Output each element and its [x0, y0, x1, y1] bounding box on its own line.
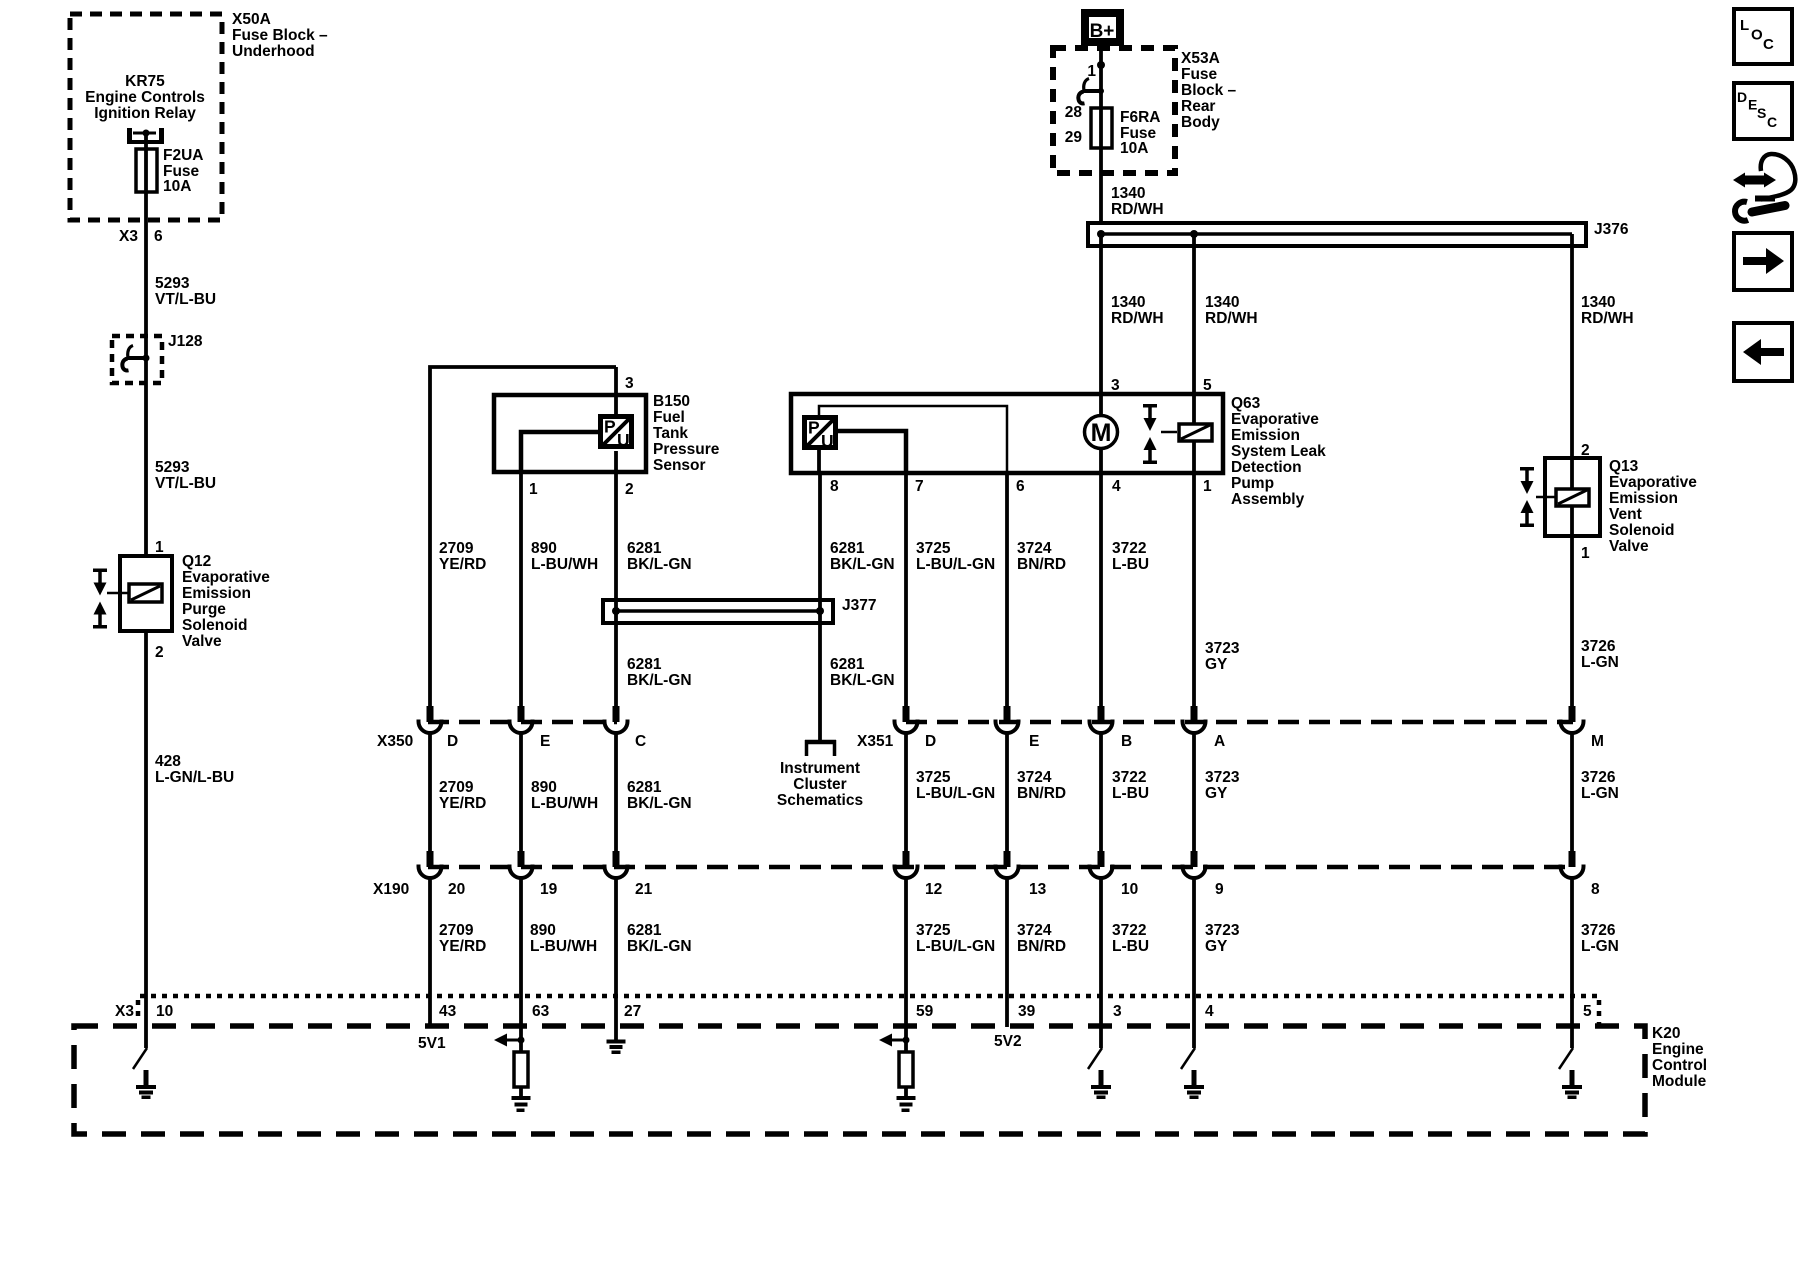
svg-text:B+: B+	[1090, 21, 1115, 42]
ECM pin 10 internal ground	[133, 996, 156, 1099]
svg-text:Valve: Valve	[182, 633, 222, 650]
connector X190 9	[1183, 851, 1206, 878]
engine control module K20 dashed box	[74, 1026, 1645, 1134]
svg-text:L-BU: L-BU	[1112, 785, 1149, 802]
svg-text:L-GN: L-GN	[1581, 938, 1619, 955]
svg-text:Pressure: Pressure	[653, 441, 720, 458]
svg-text:6281: 6281	[627, 922, 662, 939]
svg-text:KR75: KR75	[125, 73, 165, 90]
svg-text:Emission: Emission	[1231, 427, 1300, 444]
svg-text:L-BU/WH: L-BU/WH	[531, 556, 598, 573]
wire from B+ through X53A	[1099, 46, 1103, 223]
svg-text:L-GN: L-GN	[1581, 785, 1619, 802]
svg-text:3723: 3723	[1205, 769, 1240, 786]
svg-text:M: M	[1591, 733, 1604, 750]
svg-text:890: 890	[531, 779, 557, 796]
svg-text:E: E	[540, 733, 550, 750]
svg-text:D: D	[447, 733, 458, 750]
svg-text:J376: J376	[1594, 221, 1629, 238]
wire 1340 to Q13	[1572, 234, 1634, 458]
svg-text:L-BU/L-GN: L-BU/L-GN	[916, 785, 995, 802]
svg-text:Evaporative: Evaporative	[1231, 411, 1319, 428]
splice J376	[1088, 221, 1629, 246]
svg-text:Sensor: Sensor	[653, 457, 706, 474]
svg-text:19: 19	[540, 881, 558, 898]
icon wire repair	[1733, 154, 1795, 221]
svg-text:Detection: Detection	[1231, 459, 1302, 476]
wire 3726 below X190	[1572, 878, 1619, 996]
svg-text:3: 3	[625, 375, 634, 392]
pin labels of Q63 top	[1111, 377, 1212, 394]
connector X190 20	[419, 851, 442, 878]
svg-text:3722: 3722	[1112, 922, 1146, 939]
wire 428 L-GN/L-BU	[146, 631, 234, 996]
wire 3724 below X190	[1007, 878, 1066, 996]
label F2UA Fuse 10A	[163, 147, 203, 195]
connector X351 M	[1561, 706, 1584, 733]
svg-text:5V2: 5V2	[994, 1033, 1022, 1050]
labels X350 row	[377, 733, 1604, 750]
wire 3725 from Q63 pin7	[906, 473, 995, 706]
svg-text:Underhood: Underhood	[232, 43, 315, 60]
svg-text:YE/RD: YE/RD	[439, 556, 486, 573]
wire 2709 below X190	[430, 878, 486, 996]
svg-text:Control: Control	[1652, 1057, 1707, 1074]
svg-text:L-GN/L-BU: L-GN/L-BU	[155, 769, 234, 786]
ECM pin 63 pullup resistor and ground	[494, 996, 531, 1112]
svg-text:VT/L-BU: VT/L-BU	[155, 475, 216, 492]
svg-text:6281: 6281	[627, 779, 662, 796]
wire from relay through fuse to Q12	[144, 133, 148, 556]
wire 6281 between rows	[616, 733, 692, 851]
svg-text:C: C	[635, 733, 646, 750]
svg-text:BK/L-GN: BK/L-GN	[627, 938, 692, 955]
svg-text:Q63: Q63	[1231, 395, 1261, 412]
ECM pin 4 internal ground	[1181, 996, 1204, 1099]
svg-text:M: M	[1091, 419, 1112, 447]
svg-text:O: O	[1751, 27, 1763, 44]
svg-text:X3: X3	[119, 228, 138, 245]
label X50A Fuse Block Underhood	[232, 11, 328, 60]
svg-text:X350: X350	[377, 733, 413, 750]
svg-text:10A: 10A	[1120, 140, 1148, 157]
svg-text:28: 28	[1065, 104, 1083, 121]
svg-text:X351: X351	[857, 733, 894, 750]
svg-text:Q12: Q12	[182, 553, 211, 570]
svg-text:3725: 3725	[916, 922, 951, 939]
svg-text:6281: 6281	[627, 656, 662, 673]
svg-text:BK/L-GN: BK/L-GN	[627, 672, 692, 689]
connector X350 C	[605, 706, 628, 733]
svg-text:5293: 5293	[155, 459, 190, 476]
label Instrument Cluster Schematics	[777, 760, 863, 809]
svg-text:3722: 3722	[1112, 769, 1146, 786]
connector X351 A	[1183, 706, 1206, 733]
connector X190 19	[510, 851, 533, 878]
svg-text:Solenoid: Solenoid	[1609, 522, 1674, 539]
svg-text:3: 3	[1111, 377, 1120, 394]
wire 3726 L-GN upper	[1572, 536, 1619, 706]
valve symbol inside Q63	[1143, 404, 1177, 464]
svg-text:43: 43	[439, 1003, 457, 1020]
svg-text:10A: 10A	[163, 178, 191, 195]
svg-text:RD/WH: RD/WH	[1205, 310, 1258, 327]
connector label X3 pin 6	[119, 228, 163, 245]
wire 1340 to Q63 pin 3	[1101, 234, 1164, 394]
connector X190 21	[605, 851, 628, 878]
svg-text:21: 21	[635, 881, 653, 898]
svg-text:S: S	[1757, 105, 1766, 121]
svg-text:D: D	[1737, 89, 1747, 105]
svg-text:Vent: Vent	[1609, 506, 1642, 523]
wire 2709 between rows	[430, 733, 486, 851]
labels X190 row	[373, 881, 1600, 898]
svg-text:X50A: X50A	[232, 11, 271, 28]
svg-text:Module: Module	[1652, 1073, 1707, 1090]
connector X190 12	[895, 851, 918, 878]
svg-text:Valve: Valve	[1609, 538, 1649, 555]
svg-text:29: 29	[1065, 129, 1083, 146]
svg-text:Block –: Block –	[1181, 82, 1237, 99]
solenoid valve Q13	[1520, 458, 1600, 536]
svg-text:6281: 6281	[627, 540, 662, 557]
icon arrow right	[1734, 233, 1792, 290]
svg-text:1: 1	[1087, 63, 1096, 80]
svg-text:Engine: Engine	[1652, 1041, 1704, 1058]
pin 1 of Q12	[155, 539, 164, 556]
fuse F6RA	[1065, 104, 1112, 148]
wire 3724 from Q63 pin6	[1007, 473, 1066, 706]
svg-text:Instrument: Instrument	[780, 760, 860, 777]
connector row X190 dashes	[428, 865, 1573, 870]
svg-text:RD/WH: RD/WH	[1111, 201, 1164, 218]
pump assembly Q63 box	[791, 394, 1223, 473]
wire 3725 between rows	[906, 733, 995, 851]
ECM pin 27 internal ground	[607, 996, 626, 1054]
connector X351 B	[1090, 706, 1113, 733]
svg-text:Fuel: Fuel	[653, 409, 685, 426]
wire label 2709 YE/RD upper	[439, 540, 486, 573]
svg-text:1: 1	[1203, 478, 1212, 495]
svg-text:39: 39	[1018, 1003, 1036, 1020]
svg-text:Q13: Q13	[1609, 458, 1639, 475]
svg-text:B150: B150	[653, 393, 690, 410]
svg-text:5293: 5293	[155, 275, 190, 292]
svg-text:5: 5	[1583, 1003, 1592, 1020]
svg-text:890: 890	[530, 922, 556, 939]
svg-text:Rear: Rear	[1181, 98, 1215, 115]
svg-text:Tank: Tank	[653, 425, 688, 442]
svg-text:2709: 2709	[439, 540, 474, 557]
svg-text:3725: 3725	[916, 769, 951, 786]
svg-text:7: 7	[915, 478, 924, 495]
solenoid inside Q63	[1179, 394, 1212, 473]
connector row X350 dashes	[428, 720, 1573, 725]
svg-text:D: D	[925, 733, 936, 750]
sensor B150 box	[494, 395, 646, 472]
pin 2 of Q12	[155, 644, 164, 661]
svg-text:1340: 1340	[1111, 185, 1145, 202]
wire label 6281 BK/L-GN below J377 left	[627, 656, 692, 689]
svg-text:13: 13	[1029, 881, 1047, 898]
wire 3723 from Q63 pin1	[1194, 473, 1240, 706]
svg-text:Purge: Purge	[182, 601, 226, 618]
svg-text:L-GN: L-GN	[1581, 654, 1619, 671]
svg-text:J377: J377	[842, 597, 876, 614]
svg-text:Fuse: Fuse	[1181, 66, 1218, 83]
label Q12 Evaporative Emission Purge Solenoid Valve	[182, 553, 270, 650]
svg-text:2709: 2709	[439, 922, 474, 939]
svg-text:890: 890	[531, 540, 557, 557]
wire label 1340 RD/WH top	[1111, 185, 1164, 218]
connector X350 D	[419, 706, 442, 733]
wire 890 from B150 pin1	[519, 472, 523, 706]
svg-text:BK/L-GN: BK/L-GN	[830, 672, 895, 689]
svg-text:F2UA: F2UA	[163, 147, 203, 164]
wire 890 between rows	[521, 733, 598, 851]
svg-text:System Leak: System Leak	[1231, 443, 1326, 460]
svg-text:6281: 6281	[830, 540, 865, 557]
svg-text:3722: 3722	[1112, 540, 1146, 557]
wire 3723 below X190	[1194, 878, 1240, 996]
svg-text:BK/L-GN: BK/L-GN	[830, 556, 895, 573]
svg-text:1340: 1340	[1111, 294, 1145, 311]
svg-text:L-BU/L-GN: L-BU/L-GN	[916, 938, 995, 955]
connector X351 E	[996, 706, 1019, 733]
fuse F2UA	[136, 149, 157, 192]
connector X190 13	[996, 851, 1019, 878]
svg-text:L-BU/WH: L-BU/WH	[530, 938, 597, 955]
svg-text:6281: 6281	[830, 656, 865, 673]
svg-text:1340: 1340	[1205, 294, 1239, 311]
label F6RA Fuse 10A	[1120, 109, 1160, 157]
svg-text:3726: 3726	[1581, 922, 1616, 939]
connector row X3 dotted	[138, 996, 1599, 1025]
svg-text:2: 2	[625, 481, 634, 498]
svg-text:3724: 3724	[1017, 540, 1052, 557]
svg-text:Emission: Emission	[1609, 490, 1678, 507]
svg-text:12: 12	[925, 881, 942, 898]
svg-text:4: 4	[1205, 1003, 1214, 1020]
svg-text:BN/RD: BN/RD	[1017, 785, 1066, 802]
svg-text:Pump: Pump	[1231, 475, 1274, 492]
svg-text:RD/WH: RD/WH	[1111, 310, 1164, 327]
svg-text:Evaporative: Evaporative	[1609, 474, 1697, 491]
ECM pin 59 pullup resistor and ground	[879, 996, 916, 1112]
svg-text:K20: K20	[1652, 1025, 1680, 1042]
wire 3726 between rows	[1572, 733, 1619, 851]
pin 1 of X53A	[1087, 61, 1105, 80]
wire 3722 from Q63 pin4	[1101, 473, 1149, 706]
ECM pin 3 internal ground	[1088, 996, 1111, 1099]
wire label 6281 BK/L-GN upper left	[627, 540, 692, 573]
svg-text:BK/L-GN: BK/L-GN	[627, 556, 692, 573]
splice J128	[112, 333, 203, 383]
svg-text:3724: 3724	[1017, 922, 1052, 939]
wire label 5293 VT/L-BU upper	[155, 275, 216, 308]
svg-text:Schematics: Schematics	[777, 792, 863, 809]
relay KR75 contact	[127, 128, 164, 144]
svg-text:10: 10	[156, 1003, 173, 1020]
svg-text:3726: 3726	[1581, 638, 1616, 655]
svg-text:6: 6	[154, 228, 163, 245]
svg-text:20: 20	[448, 881, 465, 898]
icon LOC	[1734, 9, 1792, 64]
wire 6281 below X190	[616, 878, 692, 996]
svg-text:63: 63	[532, 1003, 550, 1020]
svg-text:Engine Controls: Engine Controls	[85, 89, 205, 106]
svg-text:3723: 3723	[1205, 922, 1240, 939]
wire label 6281 BK/L-GN below J377 right	[830, 656, 895, 689]
svg-text:YE/RD: YE/RD	[439, 795, 486, 812]
fuse block X53A dashed box	[1053, 48, 1175, 173]
pin 1 of B150	[529, 481, 538, 498]
connector X350 E	[510, 706, 533, 733]
svg-text:3725: 3725	[916, 540, 951, 557]
svg-text:3723: 3723	[1205, 640, 1240, 657]
svg-text:5: 5	[1203, 377, 1212, 394]
svg-text:YE/RD: YE/RD	[439, 938, 486, 955]
svg-text:L-BU/WH: L-BU/WH	[531, 795, 598, 812]
svg-text:Evaporative: Evaporative	[182, 569, 270, 586]
svg-text:F6RA: F6RA	[1120, 109, 1160, 126]
svg-text:3: 3	[1113, 1003, 1122, 1020]
pin labels of Q63 bottom	[830, 478, 1212, 495]
svg-text:4: 4	[1112, 478, 1121, 495]
svg-text:Assembly: Assembly	[1231, 491, 1305, 508]
splice J377	[603, 597, 876, 623]
ECM pin 43 wire end 5V1	[418, 996, 446, 1052]
svg-text:Solenoid: Solenoid	[182, 617, 247, 634]
wire 2709 top segment	[430, 367, 616, 706]
svg-text:E: E	[1029, 733, 1039, 750]
fuse block X50A dashed box	[70, 14, 222, 220]
svg-text:10: 10	[1121, 881, 1138, 898]
wire 3722 between rows	[1101, 733, 1149, 851]
wire label 5293 VT/L-BU lower	[155, 459, 216, 492]
icon arrow left	[1734, 323, 1792, 381]
svg-text:1: 1	[1581, 545, 1590, 562]
svg-text:BK/L-GN: BK/L-GN	[627, 795, 692, 812]
svg-text:GY: GY	[1205, 785, 1228, 802]
connector X190 10	[1090, 851, 1113, 878]
svg-text:A: A	[1214, 733, 1225, 750]
svg-text:1: 1	[155, 539, 164, 556]
svg-text:B: B	[1121, 733, 1132, 750]
label Q13 Evaporative Emission Vent Solenoid Valve	[1609, 458, 1697, 555]
wire 6281 from B150 pin2	[614, 451, 618, 706]
svg-text:3724: 3724	[1017, 769, 1052, 786]
splice hook in X53A	[1078, 79, 1104, 104]
svg-text:J128: J128	[168, 333, 203, 350]
svg-text:BN/RD: BN/RD	[1017, 556, 1066, 573]
svg-text:VT/L-BU: VT/L-BU	[155, 291, 216, 308]
svg-text:9: 9	[1215, 881, 1224, 898]
wire 1340 to Q63 pin 5	[1194, 234, 1258, 394]
svg-text:2: 2	[155, 644, 164, 661]
svg-text:2709: 2709	[439, 779, 474, 796]
svg-text:8: 8	[830, 478, 839, 495]
wire label 890 L-BU/WH upper	[531, 540, 598, 573]
svg-text:Body: Body	[1181, 114, 1220, 131]
svg-text:Emission: Emission	[182, 585, 251, 602]
svg-text:27: 27	[624, 1003, 641, 1020]
label K20 Engine Control Module	[1652, 1025, 1707, 1090]
svg-text:GY: GY	[1205, 656, 1228, 673]
svg-text:X3: X3	[115, 1003, 134, 1020]
connector X190 8	[1561, 851, 1584, 878]
motor M inside Q63	[1085, 394, 1118, 473]
svg-text:C: C	[1767, 114, 1777, 130]
wire 3723 between rows	[1194, 733, 1240, 851]
svg-text:BN/RD: BN/RD	[1017, 938, 1066, 955]
svg-text:1340: 1340	[1581, 294, 1615, 311]
wire 3722 below X190	[1101, 878, 1149, 996]
pin 1 of Q13	[1581, 545, 1590, 562]
svg-text:X190: X190	[373, 881, 409, 898]
svg-text:Cluster: Cluster	[793, 776, 846, 793]
svg-text:428: 428	[155, 753, 181, 770]
off-page connector instrument cluster	[805, 740, 836, 756]
pin 3 of B150	[616, 367, 634, 414]
wire 6281 to instrument cluster	[820, 473, 895, 740]
labels X3 row	[115, 1003, 1592, 1020]
icon DESC	[1734, 83, 1792, 139]
wire 890 below X190	[521, 878, 597, 996]
svg-text:L: L	[1740, 17, 1749, 34]
ECM pin 39 wire end 5V2	[994, 996, 1022, 1050]
svg-text:C: C	[1763, 36, 1774, 53]
relay KR75 label	[85, 73, 205, 122]
svg-text:6: 6	[1016, 478, 1025, 495]
svg-text:3726: 3726	[1581, 769, 1616, 786]
svg-text:5V1: 5V1	[418, 1035, 446, 1052]
svg-text:Ignition Relay: Ignition Relay	[94, 105, 196, 122]
label Q63 Evaporative Emission System Leak Detection Pump Assembly	[1231, 395, 1326, 508]
battery feed B+	[1081, 9, 1124, 46]
svg-text:GY: GY	[1205, 938, 1228, 955]
label X53A Fuse Block Rear Body	[1181, 50, 1237, 131]
svg-text:L-BU: L-BU	[1112, 556, 1149, 573]
svg-text:8: 8	[1591, 881, 1600, 898]
wire 3725 below X190	[906, 878, 995, 996]
svg-text:1: 1	[529, 481, 538, 498]
svg-text:E: E	[1748, 97, 1757, 113]
svg-text:L-BU: L-BU	[1112, 938, 1149, 955]
pin 2 of Q13	[1581, 442, 1590, 459]
solenoid valve Q12	[93, 556, 172, 631]
svg-text:59: 59	[916, 1003, 934, 1020]
svg-text:X53A: X53A	[1181, 50, 1220, 67]
svg-text:L-BU/L-GN: L-BU/L-GN	[916, 556, 995, 573]
ECM pin 5 internal ground	[1559, 996, 1582, 1099]
pin 2 of B150	[625, 481, 634, 498]
svg-text:Fuse Block –: Fuse Block –	[232, 27, 328, 44]
connector X351 D	[895, 706, 918, 733]
svg-text:RD/WH: RD/WH	[1581, 310, 1634, 327]
label B150 Fuel Tank Pressure Sensor	[653, 393, 720, 474]
wire 3724 between rows	[1007, 733, 1066, 851]
